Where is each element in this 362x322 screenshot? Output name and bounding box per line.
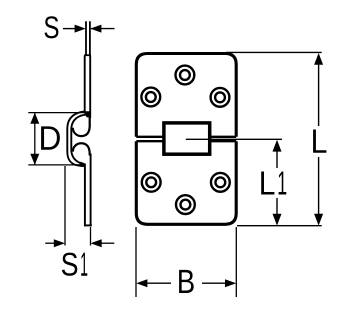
front view: upper leaf outline xyxy=(136,54,236,137)
dimension D: extension lines xyxy=(28,113,85,165)
dimension S1 arrowheads xyxy=(54,239,65,247)
side view: lower merge blob xyxy=(79,162,85,168)
side view: upper knuckle bump xyxy=(73,117,90,137)
label D xyxy=(41,126,60,149)
label L1 xyxy=(261,172,286,195)
dimension L arrowheads xyxy=(314,53,323,65)
front view: upper leaf bottom edge xyxy=(136,136,236,138)
front view: lower leaf outline xyxy=(136,141,236,224)
label S xyxy=(45,16,59,38)
dimension B arrowheads xyxy=(136,279,147,287)
hole top-centre xyxy=(176,66,195,85)
side view: upper leaf thin end (two parallel lines) xyxy=(84,21,91,55)
hole lower-left xyxy=(142,173,161,192)
side view: lower knuckle bump xyxy=(73,143,90,155)
label L xyxy=(313,130,326,153)
side view: upper leaf barrel wall (double line) xyxy=(85,56,91,119)
dimension D arrowheads xyxy=(30,113,39,124)
hole upper-right xyxy=(211,88,230,107)
dimension L: extension lines xyxy=(226,52,322,225)
side view: crank outer curve xyxy=(67,111,85,166)
dimension B: extension lines xyxy=(136,227,236,297)
hole upper-left xyxy=(141,88,160,107)
dimension L1 arrowheads xyxy=(273,140,282,152)
hole lower-right xyxy=(211,173,230,192)
dimension S: arrows and line xyxy=(63,28,115,30)
front view: hinge centre line xyxy=(186,138,282,140)
front view: lower leaf top edge xyxy=(136,140,236,142)
dimension S1: extension lines xyxy=(45,166,114,246)
label B xyxy=(179,270,194,293)
side view: upper merge blob xyxy=(83,111,91,117)
label S1 xyxy=(62,253,87,276)
front view: knuckle rectangle xyxy=(164,123,210,154)
side view: crank inner curve xyxy=(71,115,87,164)
dimension L1: line xyxy=(276,151,278,214)
hole bottom-centre xyxy=(176,195,195,214)
side view: lower leaf (double line) xyxy=(84,154,92,227)
